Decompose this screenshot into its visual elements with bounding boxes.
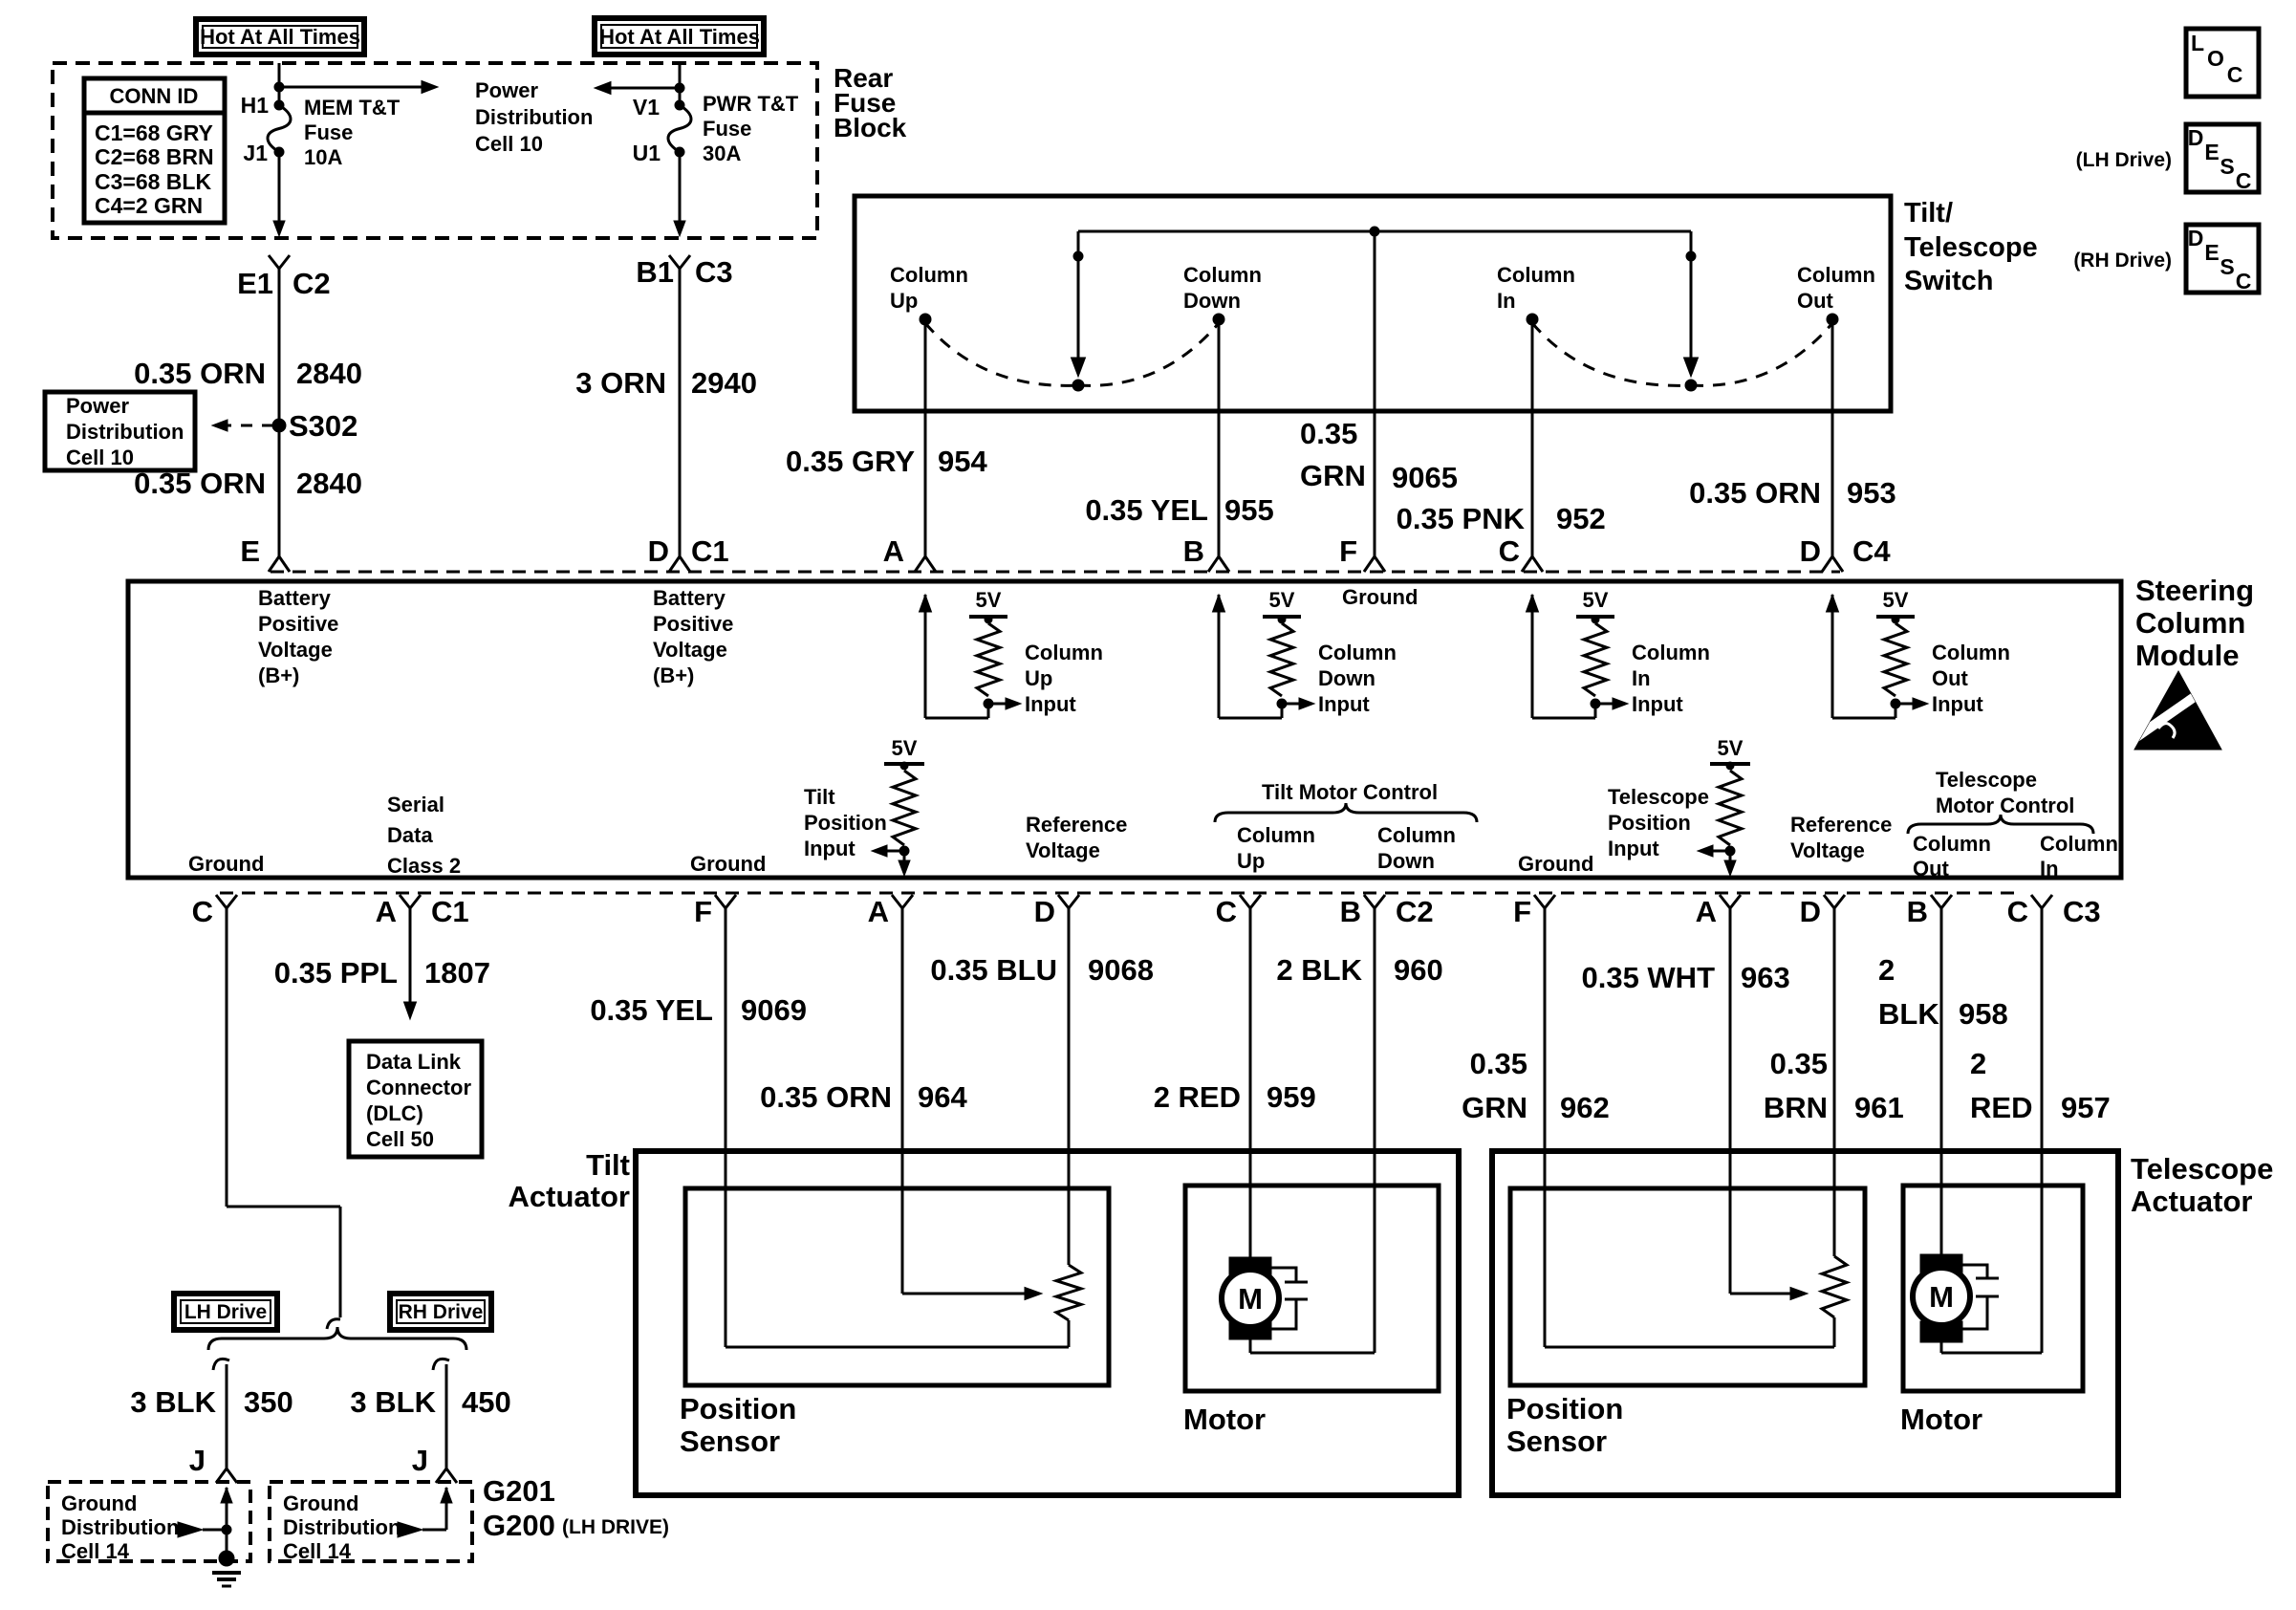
svg-text:D: D bbox=[2188, 125, 2204, 150]
svg-text:M: M bbox=[1929, 1280, 1954, 1314]
svg-text:C4: C4 bbox=[1852, 534, 1891, 568]
svg-text:Column: Column bbox=[1632, 641, 1710, 664]
svg-text:A: A bbox=[376, 895, 397, 928]
svg-text:RH Drive: RH Drive bbox=[399, 1301, 484, 1323]
svg-text:0.35 PPL: 0.35 PPL bbox=[274, 956, 398, 990]
svg-text:D: D bbox=[2188, 226, 2204, 250]
svg-text:Input: Input bbox=[1318, 692, 1370, 716]
svg-text:Distribution: Distribution bbox=[66, 420, 184, 444]
svg-text:Ground: Ground bbox=[1518, 852, 1593, 876]
svg-text:Input: Input bbox=[1932, 692, 1983, 716]
svg-text:Fuse: Fuse bbox=[703, 117, 751, 141]
svg-text:Voltage: Voltage bbox=[1790, 838, 1865, 862]
svg-text:Positive: Positive bbox=[258, 612, 338, 636]
svg-text:Motor: Motor bbox=[1183, 1403, 1266, 1436]
svg-text:C1: C1 bbox=[431, 895, 469, 928]
svg-text:Cell 50: Cell 50 bbox=[366, 1127, 434, 1151]
svg-text:954: 954 bbox=[938, 445, 987, 478]
svg-text:GRN: GRN bbox=[1462, 1091, 1527, 1124]
svg-text:5V: 5V bbox=[1269, 588, 1295, 612]
svg-text:Power: Power bbox=[475, 78, 538, 102]
svg-text:C2: C2 bbox=[1396, 895, 1434, 928]
svg-text:Fuse: Fuse bbox=[304, 120, 353, 144]
svg-text:Telescope: Telescope bbox=[1904, 232, 2038, 263]
svg-text:959: 959 bbox=[1267, 1080, 1316, 1114]
svg-text:Out: Out bbox=[1797, 289, 1834, 313]
svg-text:Reference: Reference bbox=[1790, 813, 1892, 837]
svg-text:Ground: Ground bbox=[1342, 585, 1418, 609]
svg-text:F: F bbox=[1339, 534, 1357, 568]
svg-text:C: C bbox=[2227, 62, 2243, 87]
svg-text:C: C bbox=[1499, 534, 1520, 568]
svg-text:B: B bbox=[1183, 534, 1204, 568]
svg-text:Class 2: Class 2 bbox=[387, 854, 461, 878]
svg-text:Out: Out bbox=[1932, 666, 1969, 690]
svg-text:M: M bbox=[1238, 1282, 1263, 1316]
svg-text:Block: Block bbox=[834, 113, 907, 142]
svg-text:J: J bbox=[189, 1444, 206, 1477]
svg-text:Distribution: Distribution bbox=[283, 1515, 401, 1539]
svg-text:960: 960 bbox=[1394, 953, 1443, 987]
svg-text:2 RED: 2 RED bbox=[1154, 1080, 1241, 1114]
svg-text:964: 964 bbox=[918, 1080, 967, 1114]
svg-text:C: C bbox=[1216, 895, 1237, 928]
svg-text:C: C bbox=[2236, 269, 2252, 294]
svg-text:S: S bbox=[2220, 154, 2234, 179]
svg-text:(B+): (B+) bbox=[258, 664, 299, 687]
svg-text:In: In bbox=[2040, 857, 2059, 881]
svg-text:E: E bbox=[2204, 140, 2219, 164]
svg-text:C3: C3 bbox=[2063, 895, 2101, 928]
svg-text:MEM T&T: MEM T&T bbox=[304, 96, 401, 120]
svg-text:955: 955 bbox=[1224, 493, 1274, 527]
svg-text:B: B bbox=[1340, 895, 1361, 928]
svg-text:Cell 10: Cell 10 bbox=[475, 132, 543, 156]
svg-text:Voltage: Voltage bbox=[653, 638, 727, 662]
svg-text:Ground: Ground bbox=[61, 1491, 137, 1515]
svg-text:Distribution: Distribution bbox=[475, 105, 593, 129]
svg-text:0.35 ORN: 0.35 ORN bbox=[134, 357, 266, 390]
svg-text:3 BLK: 3 BLK bbox=[130, 1385, 216, 1419]
svg-text:Motor Control: Motor Control bbox=[1936, 794, 2074, 817]
svg-text:Switch: Switch bbox=[1904, 266, 1993, 296]
svg-text:Motor: Motor bbox=[1900, 1403, 1982, 1436]
svg-text:0.35 ORN: 0.35 ORN bbox=[760, 1080, 892, 1114]
svg-text:Position: Position bbox=[680, 1392, 796, 1425]
svg-text:L: L bbox=[2191, 31, 2204, 55]
svg-text:2: 2 bbox=[1970, 1047, 1986, 1080]
svg-text:J: J bbox=[412, 1444, 428, 1477]
svg-text:Steering: Steering bbox=[2135, 574, 2254, 607]
svg-text:C: C bbox=[2007, 895, 2028, 928]
svg-text:E: E bbox=[240, 534, 260, 568]
svg-text:5V: 5V bbox=[1718, 736, 1744, 760]
svg-text:Column: Column bbox=[1913, 832, 1991, 856]
svg-text:Serial: Serial bbox=[387, 793, 444, 816]
svg-text:Tilt Motor Control: Tilt Motor Control bbox=[1262, 780, 1438, 804]
svg-text:0.35 GRY: 0.35 GRY bbox=[786, 445, 915, 478]
svg-text:Down: Down bbox=[1318, 666, 1375, 690]
svg-text:H1: H1 bbox=[241, 93, 270, 118]
svg-text:Battery: Battery bbox=[258, 586, 332, 610]
svg-text:3 ORN: 3 ORN bbox=[575, 366, 666, 400]
svg-text:5V: 5V bbox=[1583, 588, 1609, 612]
svg-text:Reference: Reference bbox=[1026, 813, 1127, 837]
svg-text:Tilt: Tilt bbox=[586, 1148, 630, 1182]
svg-text:In: In bbox=[1632, 666, 1651, 690]
svg-text:Actuator: Actuator bbox=[2131, 1185, 2252, 1218]
svg-text:Column: Column bbox=[1932, 641, 2010, 664]
svg-text:953: 953 bbox=[1847, 476, 1896, 510]
svg-text:Cell 14: Cell 14 bbox=[283, 1539, 352, 1563]
svg-text:963: 963 bbox=[1741, 961, 1790, 994]
svg-text:Down: Down bbox=[1183, 289, 1241, 313]
svg-text:Telescope: Telescope bbox=[2131, 1152, 2273, 1186]
svg-text:C2=68 BRN: C2=68 BRN bbox=[95, 144, 214, 169]
svg-text:Column: Column bbox=[1237, 823, 1315, 847]
svg-text:RED: RED bbox=[1970, 1091, 2032, 1124]
svg-text:0.35 YEL: 0.35 YEL bbox=[1085, 493, 1208, 527]
svg-text:0.35: 0.35 bbox=[1770, 1047, 1828, 1080]
svg-text:In: In bbox=[1497, 289, 1516, 313]
svg-text:B1: B1 bbox=[636, 255, 674, 289]
svg-text:E: E bbox=[2204, 240, 2219, 265]
svg-text:Module: Module bbox=[2135, 639, 2240, 672]
svg-text:C3: C3 bbox=[695, 255, 733, 289]
svg-text:0.35 ORN: 0.35 ORN bbox=[1689, 476, 1821, 510]
svg-text:F: F bbox=[1513, 895, 1531, 928]
svg-text:350: 350 bbox=[244, 1385, 293, 1419]
svg-text:Position: Position bbox=[804, 811, 887, 835]
svg-text:Column: Column bbox=[2040, 832, 2118, 856]
svg-text:Input: Input bbox=[1025, 692, 1076, 716]
svg-text:Ground: Ground bbox=[690, 852, 766, 876]
svg-text:Position: Position bbox=[1608, 811, 1691, 835]
svg-text:C4=2 GRN: C4=2 GRN bbox=[95, 193, 203, 218]
svg-text:Power: Power bbox=[66, 394, 129, 418]
svg-text:958: 958 bbox=[1959, 997, 2008, 1031]
svg-text:Column: Column bbox=[1797, 263, 1875, 287]
svg-text:C1=68 GRY: C1=68 GRY bbox=[95, 120, 213, 145]
svg-text:U1: U1 bbox=[633, 141, 661, 165]
svg-text:B: B bbox=[1907, 895, 1928, 928]
svg-text:(B+): (B+) bbox=[653, 664, 694, 687]
svg-text:Voltage: Voltage bbox=[1026, 838, 1100, 862]
svg-text:Ground: Ground bbox=[283, 1491, 358, 1515]
svg-text:LH Drive: LH Drive bbox=[184, 1301, 267, 1323]
svg-text:PWR T&T: PWR T&T bbox=[703, 92, 799, 116]
svg-text:9065: 9065 bbox=[1392, 461, 1458, 494]
svg-text:BRN: BRN bbox=[1764, 1091, 1828, 1124]
svg-text:C2: C2 bbox=[292, 267, 331, 300]
svg-text:(RH Drive): (RH Drive) bbox=[2073, 250, 2172, 272]
svg-text:952: 952 bbox=[1556, 502, 1606, 535]
svg-text:G200: G200 bbox=[483, 1509, 555, 1542]
svg-text:A: A bbox=[1696, 895, 1717, 928]
svg-text:CONN ID: CONN ID bbox=[110, 84, 199, 108]
svg-text:E1: E1 bbox=[237, 267, 273, 300]
svg-text:Telescope: Telescope bbox=[1608, 785, 1709, 809]
svg-text:Hot At All Times: Hot At All Times bbox=[200, 25, 360, 49]
svg-text:10A: 10A bbox=[304, 145, 342, 169]
svg-text:961: 961 bbox=[1854, 1091, 1904, 1124]
svg-text:J1: J1 bbox=[243, 141, 268, 165]
svg-text:Data: Data bbox=[387, 823, 433, 847]
svg-text:2840: 2840 bbox=[296, 467, 362, 500]
svg-text:0.35 WHT: 0.35 WHT bbox=[1581, 961, 1715, 994]
svg-text:Data Link: Data Link bbox=[366, 1050, 462, 1074]
svg-text:Telescope: Telescope bbox=[1936, 768, 2037, 792]
svg-text:GRN: GRN bbox=[1300, 459, 1366, 492]
svg-text:BLK: BLK bbox=[1878, 997, 1939, 1031]
svg-text:9069: 9069 bbox=[741, 993, 807, 1027]
svg-text:Up: Up bbox=[890, 289, 918, 313]
svg-text:Ground: Ground bbox=[188, 852, 264, 876]
svg-text:Column: Column bbox=[1377, 823, 1456, 847]
svg-text:Sensor: Sensor bbox=[1506, 1425, 1607, 1458]
svg-text:5V: 5V bbox=[1883, 588, 1909, 612]
svg-text:V1: V1 bbox=[633, 95, 660, 120]
svg-text:2940: 2940 bbox=[691, 366, 757, 400]
svg-text:0.35 BLU: 0.35 BLU bbox=[930, 953, 1057, 987]
svg-text:D: D bbox=[1800, 534, 1821, 568]
svg-text:A: A bbox=[883, 534, 904, 568]
svg-text:Input: Input bbox=[1608, 837, 1659, 860]
svg-text:Column: Column bbox=[2135, 606, 2245, 640]
svg-text:D: D bbox=[1034, 895, 1055, 928]
svg-text:D: D bbox=[1800, 895, 1821, 928]
svg-text:Positive: Positive bbox=[653, 612, 733, 636]
svg-text:C3=68 BLK: C3=68 BLK bbox=[95, 169, 211, 194]
svg-text:1807: 1807 bbox=[424, 956, 490, 990]
svg-text:9068: 9068 bbox=[1088, 953, 1154, 987]
svg-text:Voltage: Voltage bbox=[258, 638, 333, 662]
svg-text:Battery: Battery bbox=[653, 586, 726, 610]
svg-text:G201: G201 bbox=[483, 1474, 555, 1508]
svg-text:C: C bbox=[2236, 168, 2252, 193]
svg-text:Sensor: Sensor bbox=[680, 1425, 780, 1458]
svg-text:0.35: 0.35 bbox=[1470, 1047, 1527, 1080]
svg-text:A: A bbox=[868, 895, 889, 928]
svg-text:Tilt/: Tilt/ bbox=[1904, 198, 1953, 228]
svg-text:Down: Down bbox=[1377, 849, 1435, 873]
svg-text:Tilt: Tilt bbox=[804, 785, 835, 809]
svg-text:O: O bbox=[2207, 46, 2224, 71]
svg-text:Hot At All Times: Hot At All Times bbox=[599, 25, 760, 49]
svg-text:S302: S302 bbox=[289, 409, 357, 443]
svg-text:0.35 PNK: 0.35 PNK bbox=[1397, 502, 1526, 535]
svg-text:C1: C1 bbox=[691, 534, 729, 568]
svg-text:Up: Up bbox=[1025, 666, 1052, 690]
svg-text:Out: Out bbox=[1913, 857, 1950, 881]
svg-text:5V: 5V bbox=[892, 736, 918, 760]
svg-text:Column: Column bbox=[1318, 641, 1397, 664]
svg-text:0.35 YEL: 0.35 YEL bbox=[590, 993, 713, 1027]
svg-text:Input: Input bbox=[1632, 692, 1683, 716]
svg-text:30A: 30A bbox=[703, 141, 741, 165]
svg-text:S: S bbox=[2220, 254, 2234, 279]
svg-text:450: 450 bbox=[462, 1385, 511, 1419]
svg-text:Up: Up bbox=[1237, 849, 1265, 873]
svg-text:Column: Column bbox=[1025, 641, 1103, 664]
svg-text:D: D bbox=[648, 534, 669, 568]
svg-text:962: 962 bbox=[1560, 1091, 1610, 1124]
svg-text:Actuator: Actuator bbox=[509, 1180, 630, 1213]
svg-text:Cell 14: Cell 14 bbox=[61, 1539, 130, 1563]
svg-text:957: 957 bbox=[2061, 1091, 2111, 1124]
svg-text:Column: Column bbox=[1497, 263, 1575, 287]
svg-text:(LH Drive): (LH Drive) bbox=[2076, 149, 2172, 171]
svg-text:3 BLK: 3 BLK bbox=[350, 1385, 436, 1419]
svg-text:(LH DRIVE): (LH DRIVE) bbox=[562, 1516, 669, 1538]
svg-text:Column: Column bbox=[1183, 263, 1262, 287]
svg-text:C: C bbox=[192, 895, 213, 928]
svg-text:Input: Input bbox=[804, 837, 856, 860]
svg-text:Position: Position bbox=[1506, 1392, 1623, 1425]
svg-text:Cell 10: Cell 10 bbox=[66, 446, 134, 469]
svg-text:2840: 2840 bbox=[296, 357, 362, 390]
svg-text:Connector: Connector bbox=[366, 1076, 471, 1099]
svg-text:Column: Column bbox=[890, 263, 968, 287]
svg-text:(DLC): (DLC) bbox=[366, 1101, 423, 1125]
svg-text:2: 2 bbox=[1878, 953, 1895, 987]
svg-text:F: F bbox=[694, 895, 712, 928]
svg-text:0.35: 0.35 bbox=[1300, 417, 1357, 450]
svg-text:Distribution: Distribution bbox=[61, 1515, 179, 1539]
svg-text:5V: 5V bbox=[976, 588, 1002, 612]
svg-text:2 BLK: 2 BLK bbox=[1276, 953, 1362, 987]
